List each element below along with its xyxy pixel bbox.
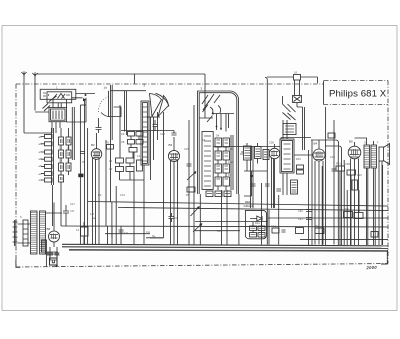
padder row C32 [255,143,262,164]
IF coupling pair [251,147,254,209]
svg-text:B2: B2 [91,143,95,147]
svg-text:R15: R15 [296,157,301,161]
gram switch [283,96,305,150]
svg-text:B5: B5 [349,140,353,144]
antenna terminal A1 [21,71,26,133]
padder capacitor cluster [121,132,143,159]
cap CH on heater [119,226,128,245]
mains transformer S7 secondary [28,211,62,254]
title box Philips 681 X [324,81,389,105]
IF transformer S3 [202,132,233,245]
svg-text:R12: R12 [255,221,260,225]
svg-text:C6: C6 [175,216,179,220]
svg-text:C9: C9 [121,132,125,136]
fan output wires [151,117,154,180]
output grid resistors [336,150,358,245]
smoothing cap CN [63,205,96,226]
svg-text:C1: C1 [109,159,113,163]
AVC diode box [280,139,313,195]
grid capacitor [96,118,102,133]
cap tick on screen wire [187,164,192,166]
antenna terminal A2 [32,72,37,110]
grid line to AVC [213,146,280,148]
border corner bottom-right [381,250,387,264]
rectifier tube B6 [47,185,60,247]
svg-text:S6: S6 [364,141,368,145]
variable arrow (volume control) [193,224,202,233]
svg-text:1a: 1a [104,86,108,90]
svg-text:Tm: Tm [316,224,320,228]
resistor R1 [106,141,114,150]
tuning gang wires [111,85,113,202]
tube B4 [311,140,342,245]
svg-text:C12: C12 [271,224,276,228]
svg-text:C20: C20 [228,147,233,151]
svg-text:C22: C22 [228,160,233,164]
filter capacitors [47,247,60,260]
oscillator coil S2 [141,101,149,165]
tone cap boxes [315,120,334,245]
svg-text:S: S [20,215,22,219]
padder row C34 [263,150,269,160]
tone network box [296,228,304,234]
mains voltage selector [13,215,29,246]
wire runs center [112,165,144,245]
screen line [195,230,240,232]
volume control wires [239,159,281,245]
svg-text:S3: S3 [202,138,206,142]
coupling wires out of S1 [67,94,96,123]
svg-text:GRAM: GRAM [244,204,254,208]
HT bus [62,244,388,246]
power resistor boxes right [344,165,383,245]
long wire runs left block [80,100,87,245]
svg-text:127: 127 [90,212,95,216]
return line [146,237,164,239]
second gang wires [150,112,164,238]
cap CH detail [146,230,156,238]
svg-text:C13: C13 [120,193,125,197]
svg-text:Ne: Ne [92,216,96,220]
switch shaft link [72,107,74,160]
svg-text:R5: R5 [186,193,190,197]
antenna coil unit S1 [40,86,76,103]
converter section box [198,91,239,245]
AVC feed line [281,138,311,140]
tube B5 [348,140,361,246]
decoupling resistors R16 [297,165,304,174]
svg-text:C17: C17 [70,202,75,206]
cap on AVC wire [80,152,85,165]
misc value labels [70,132,379,247]
coupling cap C36 [328,133,335,138]
svg-text:CH: CH [146,230,150,234]
chassis boundary (dash-dot border) [16,81,388,268]
svg-text:C38: C38 [345,162,350,166]
svg-text:C15: C15 [184,147,189,151]
trimmer rosette [269,141,280,209]
capacitor block right [371,232,378,238]
svg-text:R1: R1 [106,141,110,145]
svg-text:C8: C8 [121,140,125,144]
svg-text:R9: R9 [240,152,244,156]
svg-text:R21: R21 [336,162,341,166]
tuning capacitor C1 rotor dotted arc [98,91,146,135]
svg-text:C35: C35 [330,155,335,159]
junction blob [78,174,83,178]
heater drop wires [108,226,113,245]
converter oscillator switch [200,98,235,132]
detector branch wiring [244,164,267,245]
detector wiring verticals [298,107,342,245]
output transformer S5 [355,138,377,245]
switch wiper arrows [35,104,50,113]
antenna coil secondary S1b [49,99,67,133]
tube B3 [168,131,179,245]
svg-text:CH: CH [124,231,128,235]
wire run [105,140,107,226]
grid wire to B3 [121,130,174,132]
mains aerial coupler with fuse F1 [265,71,318,204]
diode load parts [271,224,286,233]
mains switch on border [42,252,59,267]
cap tick mid [251,184,256,186]
bias line [105,233,150,235]
gram coupling box [283,124,296,135]
cathode line [195,221,268,223]
tuning capacitor C1 vanes [147,93,170,117]
svg-text:B4: B4 [314,142,318,146]
chassis bus [69,250,388,251]
padder row C30 [241,143,252,164]
border corner bottom-left [16,260,20,268]
svg-text:R25: R25 [344,208,349,212]
svg-text:R7: R7 [228,173,232,177]
bias resistor box [76,222,88,245]
resistor R5 [187,187,195,192]
AVC bus line [118,208,388,211]
mains transformer S7 primary [31,211,38,254]
svg-text:Ne: Ne [152,234,156,238]
svg-text:CN: CN [70,209,74,213]
trimmer cluster lower [109,105,144,180]
heater feed line [61,226,388,227]
svg-text:S4: S4 [216,134,220,138]
cap tick C12 [153,120,158,131]
detector network box [245,210,266,238]
band switch SK1 ladder [39,128,54,185]
REP GRAM label [244,200,254,208]
svg-text:C12: C12 [160,132,165,136]
filament winding [42,240,47,252]
cap tick right [332,169,337,171]
aerial wire [37,74,205,98]
band switch contact columns [59,128,72,226]
svg-text:B6: B6 [47,227,51,231]
right section lines [268,218,388,240]
svg-text:R2: R2 [98,193,102,197]
svg-text:R22: R22 [357,173,362,177]
filament bus A [62,247,388,249]
svg-text:B3: B3 [169,143,173,147]
AF coupling line [88,202,389,207]
svg-text:2000: 2000 [365,265,377,271]
grid leak block [291,180,298,194]
gram input plug [293,96,302,103]
loudspeaker [379,144,390,246]
wire A1 to band switch [24,132,52,134]
variable arrow (IF trimmer) [187,172,196,181]
cap C6 [169,213,179,222]
svg-text:C38: C38 [269,141,274,145]
long screen wires [189,105,194,245]
svg-text:Philips 681 X: Philips 681 X [329,89,387,100]
junction drop [133,74,135,84]
variable arrow (AVC pot) [191,207,200,217]
svg-text:C2: C2 [109,167,113,171]
tube B2 [91,133,102,245]
